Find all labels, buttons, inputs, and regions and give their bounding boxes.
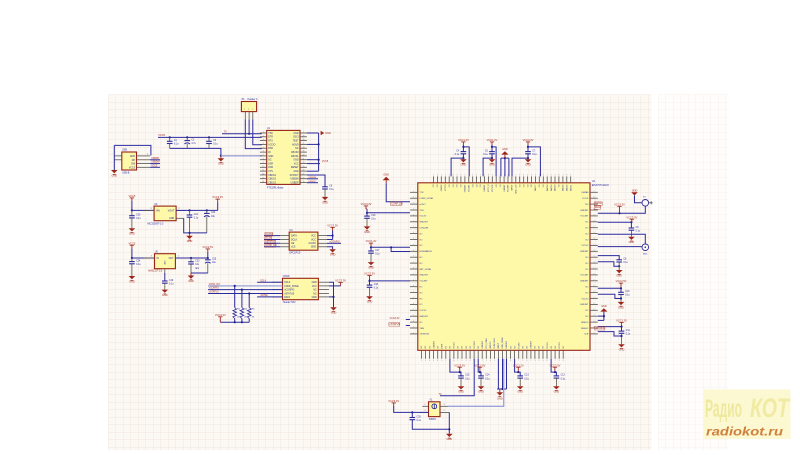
svg-text:I/O: I/O xyxy=(462,346,464,349)
power port VCC3.3V bottom xyxy=(549,363,560,370)
svg-text:GND_CRKB: GND_CRKB xyxy=(502,337,504,349)
ground CON8 xyxy=(330,307,337,314)
svg-text:14: 14 xyxy=(262,181,264,183)
wire Y1 clock to U2 bottom pin xyxy=(448,359,504,407)
wire U6 GND rail xyxy=(184,218,207,233)
svg-text:5: 5 xyxy=(425,360,426,362)
svg-text:4: 4 xyxy=(433,360,434,362)
svg-text:DAC62: DAC62 xyxy=(562,184,565,191)
svg-text:I/O: I/O xyxy=(539,184,541,187)
svg-text:TCLK0: TCLK0 xyxy=(518,342,520,349)
svg-text:I/O: I/O xyxy=(585,316,588,318)
svg-text:0.1u: 0.1u xyxy=(174,144,179,146)
wire nCONFIG to CON8 xyxy=(208,289,283,291)
svg-text:NC: NC xyxy=(313,290,317,292)
svg-text:GND: GND xyxy=(312,297,317,299)
svg-text:GNDINT: GNDINT xyxy=(419,275,428,277)
svg-text:2: 2 xyxy=(444,410,445,412)
svg-text:I/O: I/O xyxy=(457,184,459,187)
svg-text:8: 8 xyxy=(523,175,524,177)
net label USBDP xyxy=(150,159,160,161)
svg-text:4: 4 xyxy=(425,410,426,412)
svg-text:GND: GND xyxy=(331,312,337,315)
svg-text:50MHz: 50MHz xyxy=(429,419,437,421)
svg-text:8: 8 xyxy=(510,360,511,362)
svg-text:I/O: I/O xyxy=(510,346,512,349)
ground C15 xyxy=(458,386,465,393)
svg-text:I/O: I/O xyxy=(585,222,588,224)
svg-text:C20: C20 xyxy=(136,215,141,217)
svg-text:VCC3.3V: VCC3.3V xyxy=(390,317,400,320)
svg-text:GND: GND xyxy=(367,301,373,304)
svg-text:USBDP: USBDP xyxy=(151,158,159,160)
svg-text:I/O: I/O xyxy=(437,346,439,349)
svg-text:DAC61: DAC61 xyxy=(569,184,572,191)
svg-text:I/O: I/O xyxy=(585,310,588,312)
svg-text:OSCI: OSCI xyxy=(293,137,299,139)
svg-text:1: 1 xyxy=(425,404,426,406)
svg-text:DP: DP xyxy=(132,160,136,162)
svg-text:I/O: I/O xyxy=(551,346,553,349)
net label nCONFIG at U3 xyxy=(327,242,341,244)
svg-text:4: 4 xyxy=(470,360,471,362)
svg-text:nCONFIG: nCONFIG xyxy=(284,290,294,292)
svg-text:CLKUSR: CLKUSR xyxy=(419,228,428,230)
svg-text:GND: GND xyxy=(525,164,531,167)
svg-text:1: 1 xyxy=(457,360,458,362)
svg-text:9: 9 xyxy=(466,360,467,362)
ground C14 xyxy=(478,386,485,393)
svg-text:GNDNT: GNDNT xyxy=(504,184,506,192)
svg-text:radiokot.ru: radiokot.ru xyxy=(706,425,784,439)
svg-text:7: 7 xyxy=(413,203,414,205)
svg-text:nSTATUS: nSTATUS xyxy=(284,292,294,295)
svg-text:VCCINT: VCCINT xyxy=(419,281,428,283)
U2 bottom pins xyxy=(421,337,565,362)
svg-text:CLK4/CLK6: CLK4/CLK6 xyxy=(494,337,496,348)
svg-text:I/O: I/O xyxy=(585,233,588,235)
wire U2 VCCIO right to C8 xyxy=(598,256,619,260)
svg-text:I/O: I/O xyxy=(419,322,422,324)
svg-text:DAC64: DAC64 xyxy=(554,184,557,191)
svg-text:I/O: I/O xyxy=(563,346,565,349)
ground C8 xyxy=(616,270,623,277)
capacitor C15 0.1u xyxy=(458,375,470,381)
power port VCC2.5V at U5 xyxy=(202,245,213,252)
svg-text:DATA0: DATA0 xyxy=(582,191,590,194)
svg-text:GND: GND xyxy=(478,391,484,394)
svg-text:MSEL1: MSEL1 xyxy=(581,328,589,330)
svg-text:USBDP: USBDP xyxy=(291,182,299,184)
svg-text:VOUT: VOUT xyxy=(168,210,175,212)
wire P1 pin1 to FT232 RXD xyxy=(245,119,261,148)
svg-text:I/O: I/O xyxy=(559,184,561,187)
svg-text:2: 2 xyxy=(594,321,595,323)
svg-text:7: 7 xyxy=(445,360,446,362)
wire to pin xyxy=(492,147,496,177)
svg-text:6: 6 xyxy=(543,175,544,177)
svg-text:1: 1 xyxy=(244,109,245,111)
svg-text:GND: GND xyxy=(187,240,193,243)
svg-text:I/O: I/O xyxy=(470,346,472,349)
svg-text:4: 4 xyxy=(492,175,493,177)
svg-text:GND: GND xyxy=(601,305,607,308)
svg-text:22: 22 xyxy=(302,155,304,157)
svg-text:7: 7 xyxy=(303,132,304,134)
svg-text:VCC3.3V: VCC3.3V xyxy=(212,195,223,199)
svg-text:1: 1 xyxy=(594,244,595,246)
wire U3 GND xyxy=(327,247,333,250)
svg-text:0.1u: 0.1u xyxy=(136,264,141,266)
svg-text:9: 9 xyxy=(566,175,567,177)
wire cap bottom rail to GND xyxy=(170,148,221,155)
svg-text:23: 23 xyxy=(302,151,304,153)
svg-text:10: 10 xyxy=(262,166,264,168)
wire U6 VOUT rail xyxy=(176,209,218,211)
svg-text:C12: C12 xyxy=(561,375,566,377)
svg-text:GND: GND xyxy=(169,218,174,220)
svg-text:CTS: CTS xyxy=(268,171,273,173)
svg-text:DCLK: DCLK xyxy=(595,207,602,209)
power port VCC2.5V right xyxy=(616,279,627,286)
svg-text:I/O: I/O xyxy=(585,263,588,265)
wire pullup R2 xyxy=(241,290,243,308)
ground U5 caps xyxy=(190,273,192,276)
svg-text:GND: GND xyxy=(502,148,508,151)
capacitor C13 0.1u xyxy=(517,375,529,381)
svg-text:VCC1.2V: VCC1.2V xyxy=(616,319,627,323)
svg-text:CBUS3: CBUS3 xyxy=(268,182,276,184)
svg-text:1: 1 xyxy=(539,175,540,177)
U3 pins xyxy=(280,235,327,249)
svg-text:RI: RI xyxy=(268,152,271,154)
ground trio bottom xyxy=(497,359,499,389)
wire cap gnd branch xyxy=(462,154,464,158)
svg-text:0.1u: 0.1u xyxy=(136,218,141,220)
svg-text:GND: GND xyxy=(368,267,374,270)
svg-text:Header 3: Header 3 xyxy=(248,98,259,101)
svg-text:VCC1.2V: VCC1.2V xyxy=(487,138,498,142)
svg-text:I/O: I/O xyxy=(527,346,529,349)
svg-text:1: 1 xyxy=(530,360,531,362)
svg-text:0.1u: 0.1u xyxy=(465,378,470,380)
svg-text:TXD: TXD xyxy=(268,133,273,135)
svg-text:3: 3 xyxy=(594,291,595,293)
net label nCONFIG at U2 right xyxy=(594,327,605,331)
wire VCC1.2V left to U2 xyxy=(366,239,377,246)
svg-text:1: 1 xyxy=(494,360,495,362)
svg-text:VCC3.3V: VCC3.3V xyxy=(523,138,534,142)
svg-text:GND: GND xyxy=(325,132,331,135)
svg-text:7: 7 xyxy=(413,273,414,275)
wire C29 to ground rail xyxy=(412,420,449,430)
svg-text:GND: GND xyxy=(330,254,336,257)
svg-text:4: 4 xyxy=(413,303,414,305)
wire U2 to BNC left xyxy=(598,246,642,248)
capacitor C12 0.1u xyxy=(554,375,566,381)
svg-text:VCC3.3V: VCC3.3V xyxy=(388,399,399,403)
svg-text:VIN: VIN xyxy=(156,210,160,212)
svg-text:USBDP: USBDP xyxy=(308,181,316,183)
svg-text:I/O: I/O xyxy=(419,263,422,265)
svg-text:VCCIO: VCCIO xyxy=(419,310,426,312)
U1 right pins xyxy=(290,132,307,185)
svg-text:1: 1 xyxy=(594,297,595,299)
svg-text:CBUS1: CBUS1 xyxy=(291,156,299,158)
svg-text:I/O: I/O xyxy=(543,346,545,349)
svg-text:1: 1 xyxy=(413,315,414,317)
svg-text:GNDINT: GNDINT xyxy=(580,281,589,283)
capacitor C14 0.1u xyxy=(478,375,490,381)
svg-text:GND: GND xyxy=(188,280,194,283)
svg-text:I/O: I/O xyxy=(478,346,480,349)
svg-text:7: 7 xyxy=(413,327,414,329)
svg-text:4: 4 xyxy=(413,285,414,287)
svg-text:25: 25 xyxy=(302,143,304,145)
svg-text:GND: GND xyxy=(162,294,168,297)
svg-text:4: 4 xyxy=(413,321,414,323)
svg-text:16: 16 xyxy=(302,177,304,179)
svg-text:0.1u: 0.1u xyxy=(485,378,490,380)
svg-text:VCCIO: VCCIO xyxy=(268,144,275,146)
svg-text:TMS: TMS xyxy=(419,328,424,330)
svg-text:I/O: I/O xyxy=(585,287,588,289)
svg-text:26: 26 xyxy=(302,139,304,141)
svg-text:4: 4 xyxy=(594,315,595,317)
svg-text:7: 7 xyxy=(413,256,414,258)
svg-text:C13: C13 xyxy=(524,375,529,377)
svg-text:VCC: VCC xyxy=(294,163,299,165)
svg-text:5: 5 xyxy=(535,175,536,177)
svg-text:VCC5: VCC5 xyxy=(151,165,158,167)
svg-text:MC33269T-3.3: MC33269T-3.3 xyxy=(148,223,164,226)
FPGA U2 EP2C5T144C8 body xyxy=(418,183,590,350)
svg-text:GND: GND xyxy=(383,174,389,177)
svg-text:7: 7 xyxy=(413,238,414,240)
svg-text:КОТ: КОТ xyxy=(750,393,791,423)
svg-text:GNDINT: GNDINT xyxy=(580,210,589,212)
svg-text:4: 4 xyxy=(594,262,595,264)
svg-text:8: 8 xyxy=(594,250,595,252)
svg-text:CONF_DO: CONF_DO xyxy=(209,284,220,286)
wire U2 clock out to P3 xyxy=(598,206,646,213)
capacitor C9 0.1u xyxy=(629,227,641,233)
svg-text:RESET: RESET xyxy=(291,167,299,169)
svg-text:DM: DM xyxy=(131,164,135,166)
capacitor C20 0.1u xyxy=(131,210,133,215)
svg-text:C24: C24 xyxy=(136,260,141,262)
svg-text:1: 1 xyxy=(421,360,422,362)
svg-text:DAC17: DAC17 xyxy=(534,184,537,191)
wire VCC3.3V left2 to U2 xyxy=(364,272,375,279)
svg-text:GNDINT: GNDINT xyxy=(433,340,435,348)
svg-text:6: 6 xyxy=(594,256,595,258)
watermark radiokot xyxy=(703,390,791,440)
svg-text:9: 9 xyxy=(594,220,595,222)
svg-text:9: 9 xyxy=(460,175,461,177)
svg-text:I/O: I/O xyxy=(480,184,482,187)
svg-text:DTR: DTR xyxy=(268,137,273,139)
svg-text:Радио: Радио xyxy=(705,395,742,423)
svg-text:C17: C17 xyxy=(375,250,380,252)
svg-text:I/O: I/O xyxy=(514,346,516,349)
wire VCC5 to U5 IN xyxy=(131,248,133,258)
svg-text:GND02: GND02 xyxy=(441,184,443,192)
svg-text:2: 2 xyxy=(441,175,442,177)
wire USB GND xyxy=(113,145,115,170)
regulator U5 AMS1117 body xyxy=(155,254,176,269)
net label DATA0 at CON8 xyxy=(257,296,282,298)
svg-text:1: 1 xyxy=(413,226,414,228)
svg-text:VCCIO: VCCIO xyxy=(547,342,549,349)
ground up right pair xyxy=(598,315,604,317)
wire P1 pin2 to FT232 TXD xyxy=(248,119,250,133)
wire VCC5 rail xyxy=(158,136,262,138)
svg-text:nCEO: nCEO xyxy=(419,204,425,206)
svg-text:3: 3 xyxy=(449,175,450,177)
svg-text:C18: C18 xyxy=(374,284,379,286)
svg-text:nCE: nCE xyxy=(584,334,589,336)
svg-text:I/O: I/O xyxy=(449,184,451,187)
svg-text:5: 5 xyxy=(462,360,463,362)
svg-text:VCC5: VCC5 xyxy=(158,133,165,137)
svg-text:6: 6 xyxy=(453,360,454,362)
svg-text:7: 7 xyxy=(594,332,595,334)
svg-text:GNDINT: GNDINT xyxy=(419,316,428,318)
svg-text:I/O: I/O xyxy=(450,346,452,349)
svg-text:AMS1117-2.5: AMS1117-2.5 xyxy=(148,270,163,273)
svg-text:5: 5 xyxy=(570,175,571,177)
ground U6 xyxy=(189,233,191,236)
svg-text:8: 8 xyxy=(594,303,595,305)
svg-text:GNDINT: GNDINT xyxy=(419,222,428,224)
svg-text:12: 12 xyxy=(262,174,264,176)
wire U2 GNDINT row to C10 xyxy=(598,294,621,298)
svg-text:GND: GND xyxy=(312,282,317,284)
wire U1 ground bus xyxy=(318,133,320,171)
svg-text:I/O: I/O xyxy=(543,184,545,187)
capacitor C6 0.1u xyxy=(322,186,334,192)
svg-text:GND: GND xyxy=(632,189,638,192)
net label DCLK at U2 right xyxy=(594,206,601,210)
net label USBDM at U1 xyxy=(307,178,318,180)
svg-text:C21: C21 xyxy=(194,214,199,216)
svg-text:USBDM: USBDM xyxy=(151,162,159,164)
net label VCC5 at U1 VCC xyxy=(307,163,320,165)
svg-text:0.1u: 0.1u xyxy=(626,334,631,336)
net label VCC5 xyxy=(150,166,160,168)
svg-text:I/O: I/O xyxy=(585,228,588,230)
power port VCC3.3V bottom xyxy=(454,363,465,370)
svg-text:0.1u: 0.1u xyxy=(524,378,529,380)
svg-text:AGND: AGND xyxy=(292,143,299,146)
svg-text:VCCINT: VCCINT xyxy=(508,184,510,192)
svg-text:2: 2 xyxy=(248,109,249,111)
svg-text:5: 5 xyxy=(594,232,595,234)
svg-text:DATA: DATA xyxy=(291,235,297,238)
svg-text:VCC: VCC xyxy=(312,286,317,288)
svg-text:DCLK: DCLK xyxy=(284,282,291,284)
svg-text:C22: C22 xyxy=(211,212,216,214)
svg-text:GND: GND xyxy=(322,201,328,204)
wire P1 pin3 to FT232 VCCIO xyxy=(253,119,262,144)
svg-text:VCC2.5V: VCC2.5V xyxy=(474,363,485,367)
svg-text:0.1u: 0.1u xyxy=(483,154,488,156)
svg-text:1: 1 xyxy=(413,262,414,264)
power port VCC1.2V bottom xyxy=(513,363,524,370)
wire CONF_DONE to CON8 xyxy=(208,285,283,287)
wire bottom pin to C12 xyxy=(551,359,556,376)
svg-text:1: 1 xyxy=(413,244,414,246)
capacitor C17 0.1u xyxy=(368,250,380,256)
svg-text:2: 2 xyxy=(179,208,180,210)
capacitor C16 0.1u xyxy=(364,215,376,221)
svg-text:6: 6 xyxy=(526,360,527,362)
svg-text:USB-B: USB-B xyxy=(122,171,130,174)
capacitor C5 0.1u xyxy=(483,150,494,156)
svg-text:I/O: I/O xyxy=(419,245,422,247)
svg-text:I/O: I/O xyxy=(519,184,521,187)
ground U1 right xyxy=(321,131,331,135)
svg-text:FT232RL-Basic: FT232RL-Basic xyxy=(267,186,284,189)
svg-text:GND: GND xyxy=(364,231,370,234)
wire bottom pin to C13 xyxy=(515,359,521,376)
svg-text:VCCIO2: VCCIO2 xyxy=(492,184,494,192)
svg-text:GND: GND xyxy=(129,280,135,283)
svg-text:I/O: I/O xyxy=(585,269,588,271)
svg-text:TX: TX xyxy=(224,131,227,134)
svg-text:6: 6 xyxy=(490,360,491,362)
power port VCC3.3V top cluster xyxy=(523,138,534,145)
wire USB VCC loop xyxy=(114,145,151,155)
svg-text:VCC3.3V: VCC3.3V xyxy=(454,363,465,367)
ground C17 xyxy=(368,262,375,269)
svg-text:ROW/ARUN: ROW/ARUN xyxy=(419,250,432,253)
wire TX to FT232 TXD xyxy=(222,133,262,135)
svg-text:nSTATUS: nSTATUS xyxy=(266,241,276,244)
svg-text:2: 2 xyxy=(522,360,523,362)
connector USB (USB-B) xyxy=(122,152,137,170)
svg-text:TDO: TDO xyxy=(419,210,424,212)
svg-text:VCC_CRLK: VCC_CRLK xyxy=(486,337,488,348)
U6 pin stubs xyxy=(144,209,154,211)
wire U2 VCCINT row to C11 xyxy=(598,326,622,328)
svg-text:3: 3 xyxy=(151,256,152,258)
svg-text:18: 18 xyxy=(302,170,304,172)
svg-text:8: 8 xyxy=(558,175,559,177)
power port VCC2.5V bottom xyxy=(474,363,485,370)
svg-text:DAC64: DAC64 xyxy=(546,184,549,191)
power port VCC1.2V top cluster xyxy=(458,138,469,145)
svg-text:8: 8 xyxy=(437,360,438,362)
svg-text:EPC1PC8: EPC1PC8 xyxy=(289,252,301,255)
svg-text:1: 1 xyxy=(413,332,414,334)
svg-text:4.7u: 4.7u xyxy=(191,143,196,145)
svg-text:TEST: TEST xyxy=(293,141,299,143)
svg-text:3: 3 xyxy=(444,404,445,406)
svg-text:VCC3.3V: VCC3.3V xyxy=(364,272,375,276)
svg-text:C23: C23 xyxy=(195,261,200,263)
U2 top pins xyxy=(433,175,572,194)
svg-text:0.1u: 0.1u xyxy=(636,230,641,232)
svg-text:3: 3 xyxy=(441,360,442,362)
svg-text:17: 17 xyxy=(302,174,304,176)
svg-text:DATA: DATA xyxy=(284,296,290,299)
net label nSTATUS at U3 xyxy=(264,242,280,244)
svg-text:2: 2 xyxy=(594,268,595,270)
svg-text:GND: GND xyxy=(618,306,624,309)
capacitor C8 0.1u xyxy=(616,259,628,265)
